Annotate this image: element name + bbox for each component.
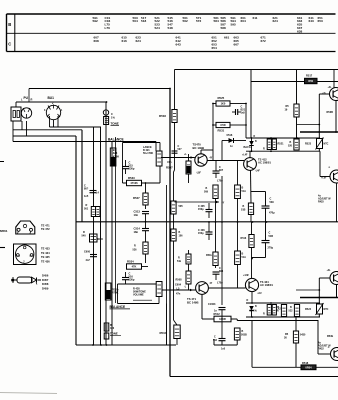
svg-text:R51N: R51N <box>160 331 167 335</box>
svg-text:R53B: R53B <box>327 111 334 114</box>
wire input to TS471 <box>162 287 196 292</box>
transistor TS434 <box>245 278 258 291</box>
svg-text:1K0: 1K0 <box>221 102 226 106</box>
svg-text:AC 108/01: AC 108/01 <box>260 283 273 287</box>
wire R531 row <box>213 124 246 126</box>
legend TO-92 labels <box>41 224 50 231</box>
legend transistor outline TO-92 <box>16 221 35 234</box>
svg-text:572: 572 <box>196 19 201 23</box>
resistor R526 <box>133 242 149 254</box>
wire PU box drop <box>12 121 14 142</box>
transistor TS470 <box>195 154 207 166</box>
table row label B <box>8 22 11 27</box>
svg-text:661: 661 <box>224 36 229 40</box>
resistor R519 <box>285 104 300 117</box>
wire bias row top y138 <box>246 137 320 139</box>
wire drive drop x252 <box>251 321 253 368</box>
svg-text:47106: 47106 <box>130 181 138 185</box>
label C604 cluster <box>175 279 182 296</box>
legend diode outline <box>11 277 41 285</box>
svg-text:1K0R: 1K0R <box>219 317 226 321</box>
wire bottom rail y375 <box>170 376 338 378</box>
resistor R522 <box>263 305 283 316</box>
wire top rail y68 <box>175 69 338 71</box>
wire drop x156 to balance pot <box>155 142 157 152</box>
wire TS472 top <box>249 151 251 157</box>
svg-text:M561: M561 <box>0 229 8 233</box>
wire bus x93 <box>93 127 95 345</box>
wire PU stub <box>15 102 17 107</box>
connector BU1 label <box>48 96 55 100</box>
wire C507 stub <box>215 161 217 167</box>
svg-text:R425: R425 <box>318 201 324 204</box>
svg-text:654: 654 <box>212 46 217 50</box>
label -L mid <box>328 167 331 169</box>
svg-text:51A: 51A <box>242 190 247 193</box>
wire x246 vertical <box>245 104 247 139</box>
wire bias row top y303 lower <box>246 302 320 304</box>
svg-text:643: 643 <box>176 42 181 46</box>
svg-text:NTC: NTC <box>324 143 329 146</box>
resistor R510 <box>241 203 254 215</box>
svg-text:R512: R512 <box>214 312 221 316</box>
resistor R527 <box>133 193 148 205</box>
wire TE436 base <box>318 317 331 354</box>
label BA114 lower <box>247 299 258 313</box>
resistor R530 <box>284 331 306 343</box>
wire C512 bottom row <box>214 339 237 345</box>
wire main horizontal rail y222 <box>76 221 338 223</box>
svg-text:B: B <box>8 22 11 27</box>
svg-text:R521: R521 <box>278 143 285 146</box>
label -L4F lower <box>257 293 262 295</box>
resistor R511b <box>177 254 191 264</box>
svg-text:BA1%: BA1% <box>250 310 258 313</box>
label under TS470 <box>196 173 201 175</box>
potentiometer R524 lower balance <box>105 283 111 300</box>
svg-text:607: 607 <box>219 169 224 172</box>
svg-text:47n: 47n <box>167 160 172 164</box>
wire x334 lower <box>336 285 338 298</box>
wire R518 row <box>252 366 338 368</box>
label node 4Y lower <box>210 282 213 285</box>
resistor R513 <box>235 185 247 199</box>
svg-text:VOLUME: VOLUME <box>133 294 144 297</box>
resistor R517 <box>305 74 318 84</box>
svg-text:BC 149B: BC 149B <box>187 300 199 304</box>
resistor R520 lower <box>289 305 300 317</box>
capacitor C603 <box>208 303 226 315</box>
svg-text:18n: 18n <box>134 230 139 234</box>
label R597 <box>166 160 173 170</box>
svg-text:+L4F: +L4F <box>242 154 248 157</box>
svg-text:NCO: NCO <box>98 238 103 241</box>
wire box left x251 <box>250 70 252 139</box>
svg-text:1n5: 1n5 <box>221 348 226 351</box>
resistor R533 <box>127 176 142 186</box>
wire BU1 pin drop a <box>49 116 51 127</box>
wire TS471 to TS434 <box>208 287 245 289</box>
svg-text:+4L: +4L <box>327 269 332 272</box>
resistor R597 <box>186 161 191 174</box>
svg-text:50?: 50? <box>178 148 183 151</box>
label adjust upper <box>318 195 331 204</box>
wire C508 stub <box>215 280 217 289</box>
wire TE434 to mid <box>336 196 338 222</box>
capacitor C504 node <box>172 145 183 153</box>
transistor TS472 <box>244 158 257 171</box>
label R523 470K <box>113 148 119 158</box>
svg-text:TE 436: TE 436 <box>41 259 50 263</box>
diode D516 <box>222 133 246 148</box>
resistor R521 <box>263 139 284 151</box>
capacitor C605 <box>198 203 213 218</box>
wire R525 row <box>213 103 246 105</box>
svg-text:505: 505 <box>179 205 184 208</box>
svg-text:51B: 51B <box>269 235 274 238</box>
svg-text:4Y: 4Y <box>210 157 213 160</box>
label B421 50+170K <box>143 146 153 155</box>
svg-text:150p: 150p <box>198 208 204 211</box>
capacitor C512 <box>213 315 226 351</box>
signal arrow 4Y <box>175 201 225 205</box>
capacitor C508 <box>213 267 224 285</box>
transistor TS471 <box>196 282 209 295</box>
wire PU pin drop b <box>26 121 28 136</box>
wire R530 top L <box>296 289 319 291</box>
wire BU1 pin drop c <box>57 116 59 127</box>
potentiometer B421 upper <box>156 151 162 166</box>
svg-text:R534: R534 <box>127 259 134 263</box>
svg-text:PU: PU <box>24 96 29 100</box>
wire C509 junction <box>251 191 266 193</box>
left margin tick 1 <box>0 161 4 163</box>
svg-text:106: 106 <box>179 235 184 238</box>
table row B part numbers <box>93 16 323 34</box>
svg-text:C: C <box>8 41 11 46</box>
label BALANCE upper <box>108 138 129 142</box>
label BA114 upper <box>244 136 256 149</box>
svg-text:4Y: 4Y <box>222 202 225 205</box>
svg-text:C514: C514 <box>134 227 141 231</box>
transistor TE435 output lower <box>330 272 338 285</box>
svg-text:548: 548 <box>168 26 173 30</box>
wire balance box upper <box>123 143 161 184</box>
wire TE435 emitter <box>336 285 338 297</box>
svg-text:C600: C600 <box>84 251 91 254</box>
wire R519 bottom L <box>297 124 320 126</box>
svg-text:+4L: +4L <box>328 86 333 89</box>
wire R510 bottom <box>250 170 253 222</box>
svg-text:D: D <box>247 299 249 302</box>
svg-text:47K: 47K <box>132 265 137 269</box>
svg-text:51B: 51B <box>241 209 246 212</box>
wire x166 lower <box>166 304 168 346</box>
label TS471 <box>187 297 199 304</box>
label R539 <box>327 111 334 114</box>
wire bias row bottom y151 <box>246 150 320 152</box>
svg-text:BC 149B: BC 149B <box>193 146 205 150</box>
label BALANCE lower <box>110 305 131 309</box>
svg-text:51b: 51b <box>177 260 182 263</box>
svg-text:608: 608 <box>219 270 224 273</box>
svg-text:1n5: 1n5 <box>84 195 89 198</box>
wire C605 stubs <box>208 199 210 204</box>
transistor TE436 output lower2 <box>331 348 338 361</box>
wire NTC lower to base <box>318 314 320 317</box>
resistor R509 <box>204 185 218 199</box>
svg-text:4n7: 4n7 <box>86 259 91 262</box>
resistor R525 <box>216 96 230 106</box>
svg-text:R527: R527 <box>133 196 140 200</box>
capacitor C600 <box>84 251 97 263</box>
wire bus x106 <box>105 102 107 345</box>
svg-text:4Y: 4Y <box>210 282 213 285</box>
label +L8F <box>321 178 327 180</box>
potentiometer R523 upper balance <box>110 148 116 166</box>
svg-text:588: 588 <box>221 26 226 30</box>
left margin label M561 <box>0 229 8 233</box>
svg-text:509: 509 <box>270 201 275 204</box>
svg-text:509: 509 <box>204 191 209 194</box>
wire emitter heavy upper <box>300 131 338 133</box>
svg-text:330p: 330p <box>129 167 135 171</box>
resistor R515 <box>234 328 247 345</box>
wire balance box lower <box>118 284 160 304</box>
wire bus y130 <box>13 129 82 131</box>
trimmer R523 NTC <box>305 138 329 150</box>
diode D517 vertical <box>249 138 257 151</box>
svg-text:R53b: R53b <box>327 335 334 338</box>
svg-text:C5D: C5D <box>220 123 225 127</box>
svg-text:520: 520 <box>288 145 293 148</box>
label TS470 <box>193 143 205 150</box>
wire PU pin drop a <box>21 121 23 130</box>
resistor R518 <box>301 361 316 369</box>
svg-text:BALANCE: BALANCE <box>110 305 126 309</box>
wire main vertical x170 <box>169 89 171 377</box>
svg-text:80?: 80? <box>84 188 89 191</box>
svg-text:BALANCE: BALANCE <box>108 138 124 142</box>
page artifact line <box>0 393 57 394</box>
capacitor C516 <box>122 272 135 285</box>
label adjust lower <box>318 342 331 351</box>
svg-text:C604: C604 <box>175 284 182 287</box>
label R538 <box>327 285 337 339</box>
svg-text:D456: D456 <box>42 274 49 278</box>
svg-text:D458: D458 <box>42 282 49 286</box>
wire PU top drop <box>28 89 30 103</box>
svg-text:TONE: TONE <box>110 332 118 336</box>
svg-text:TE 433: TE 433 <box>41 247 50 251</box>
svg-text:C: C <box>111 112 113 116</box>
svg-text:TE 435: TE 435 <box>41 255 50 259</box>
capacitor C513 <box>134 210 150 223</box>
wire x220 long vertical <box>221 141 223 306</box>
wire NTC to base drop <box>318 149 320 152</box>
wire TS470 collector rail <box>201 150 213 154</box>
svg-text:R50: R50 <box>308 79 313 83</box>
svg-text:608: 608 <box>94 39 99 43</box>
wire x320 bias to TE434 base <box>320 151 330 176</box>
wire bus x82 <box>81 130 83 222</box>
wire bus x76 <box>75 136 77 345</box>
wire BU1 pin drop b <box>53 120 55 127</box>
wire R597b <box>188 268 190 283</box>
wire R509 to C605 <box>215 199 217 223</box>
svg-text:TE 434: TE 434 <box>41 251 50 255</box>
svg-text:624: 624 <box>273 19 278 23</box>
wire base drop x320 <box>318 94 320 139</box>
wire input to TS470 <box>161 154 195 159</box>
component C/R stack at input <box>103 110 108 125</box>
svg-text:150p: 150p <box>198 232 204 235</box>
wire C510 junction <box>252 257 266 259</box>
svg-text:1n5: 1n5 <box>241 112 246 115</box>
svg-text:426: 426 <box>110 327 115 330</box>
resistor R514 <box>235 251 247 265</box>
diode D519 vertical <box>249 306 257 317</box>
connector PU label <box>24 96 29 100</box>
wire bias row bottom y317 lower <box>246 316 320 318</box>
wire x176 tail <box>176 320 177 345</box>
resistor R536 <box>276 305 287 317</box>
capacitor C521 <box>232 106 246 116</box>
svg-text:584: 584 <box>214 19 219 23</box>
wire bus x113 <box>112 137 116 345</box>
wire bus y136 <box>13 135 76 137</box>
resistor R512 <box>202 294 231 321</box>
svg-text:TE 472: TE 472 <box>41 227 50 231</box>
wire x246 to bias lower <box>245 288 247 304</box>
svg-text:R: R <box>31 98 33 102</box>
resistor R503 <box>159 110 177 123</box>
svg-text:0516: 0516 <box>227 133 233 137</box>
wire feedback vertical x213 <box>212 104 214 161</box>
wire pot2 drop <box>159 303 167 305</box>
label TS472 <box>258 158 271 165</box>
svg-text:TE 471: TE 471 <box>41 224 50 228</box>
wire x176 mid <box>174 157 178 325</box>
svg-text:L70p: L70p <box>217 282 223 285</box>
svg-text:51A: 51A <box>242 256 247 259</box>
resistor R511 <box>186 250 191 290</box>
capacitor C510 <box>262 222 274 258</box>
capacitor C509 <box>262 192 276 223</box>
svg-text:+L8F: +L8F <box>321 178 327 180</box>
svg-text:R: R <box>263 148 265 151</box>
svg-text:R: R <box>134 245 136 248</box>
svg-text:470µ: 470µ <box>269 212 275 215</box>
label +L4F lower <box>243 274 250 277</box>
wire y88 to main vertical <box>29 88 170 90</box>
trimmer R524 NTC <box>305 303 329 315</box>
svg-text:R597: R597 <box>166 166 173 170</box>
svg-text:604: 604 <box>241 19 246 23</box>
wire C521 drop <box>233 104 241 126</box>
wire TE433 top <box>333 70 335 89</box>
legend diode labels <box>42 274 49 291</box>
svg-text:R517: R517 <box>306 74 313 78</box>
label TS434 <box>260 280 273 287</box>
resistor R516 <box>241 235 255 248</box>
capacitor C515 <box>122 160 135 174</box>
svg-text:R523: R523 <box>305 143 312 146</box>
connector BU1 body <box>44 102 63 120</box>
wire feedback y320.5 <box>231 319 318 321</box>
wire TE433 emitter down <box>335 101 337 133</box>
svg-text:BA1%: BA1% <box>244 146 252 149</box>
svg-text:BU1: BU1 <box>48 96 55 100</box>
svg-text:R533: R533 <box>128 176 135 180</box>
connector PU body <box>11 98 33 122</box>
wire x297 upper <box>296 70 298 139</box>
svg-text:526: 526 <box>133 249 138 252</box>
svg-text:643: 643 <box>309 19 314 23</box>
resistor R540 <box>82 231 103 242</box>
svg-text:524: 524 <box>155 26 160 30</box>
capacitor C507 <box>213 166 224 183</box>
wire x297 lower <box>295 317 297 367</box>
component B426 TONE <box>104 323 121 339</box>
svg-text:540: 540 <box>82 235 87 238</box>
svg-text:50+170K: 50+170K <box>143 152 153 155</box>
svg-text:638: 638 <box>297 29 302 33</box>
svg-text:R524: R524 <box>305 308 312 311</box>
resistor R531 <box>216 122 230 132</box>
resistor R534 <box>127 259 142 269</box>
svg-text:C513: C513 <box>134 210 141 214</box>
wire R534 leads <box>126 266 149 268</box>
wire x145 down <box>145 183 147 209</box>
svg-text:667: 667 <box>234 42 239 46</box>
svg-text:501: 501 <box>84 208 89 211</box>
table row C part numbers <box>94 36 266 50</box>
resistor R505 <box>171 201 183 214</box>
svg-text:-L4F: -L4F <box>255 170 260 173</box>
label -CIR <box>322 93 326 95</box>
resistor R516b <box>206 252 218 266</box>
resistor R501 <box>84 204 100 217</box>
svg-text:C1603: C1603 <box>208 303 216 306</box>
wire bus bottom y345 <box>76 344 176 346</box>
svg-text:470K: 470K <box>113 154 119 158</box>
transistor TE433 output upper <box>330 88 338 101</box>
wire supply vertical x174.5 <box>174 70 176 158</box>
svg-text:270µ: 270µ <box>268 247 274 250</box>
wire R514 <box>237 222 239 288</box>
svg-text:616: 616 <box>122 39 127 43</box>
svg-text:R503: R503 <box>159 114 166 118</box>
parts table frame <box>7 14 336 52</box>
svg-text:0R04: 0R04 <box>305 366 312 370</box>
wire TS434 top <box>251 258 253 279</box>
svg-text:47n: 47n <box>176 293 181 296</box>
resistor R506 <box>171 229 183 241</box>
wire R533 to pot <box>142 166 161 183</box>
svg-text:672: 672 <box>261 39 266 43</box>
svg-text:595: 595 <box>231 23 236 27</box>
label R524 470K <box>112 288 119 295</box>
wire emitter heavy lower <box>300 297 338 299</box>
svg-text:518: 518 <box>141 19 146 23</box>
capacitor C602 <box>84 185 99 199</box>
resistor R520 upper <box>288 139 299 150</box>
left margin tick 2 <box>0 247 5 249</box>
svg-text:503B: 503B <box>241 334 247 337</box>
svg-text:330p: 330p <box>129 278 135 282</box>
svg-text:611: 611 <box>253 16 258 20</box>
